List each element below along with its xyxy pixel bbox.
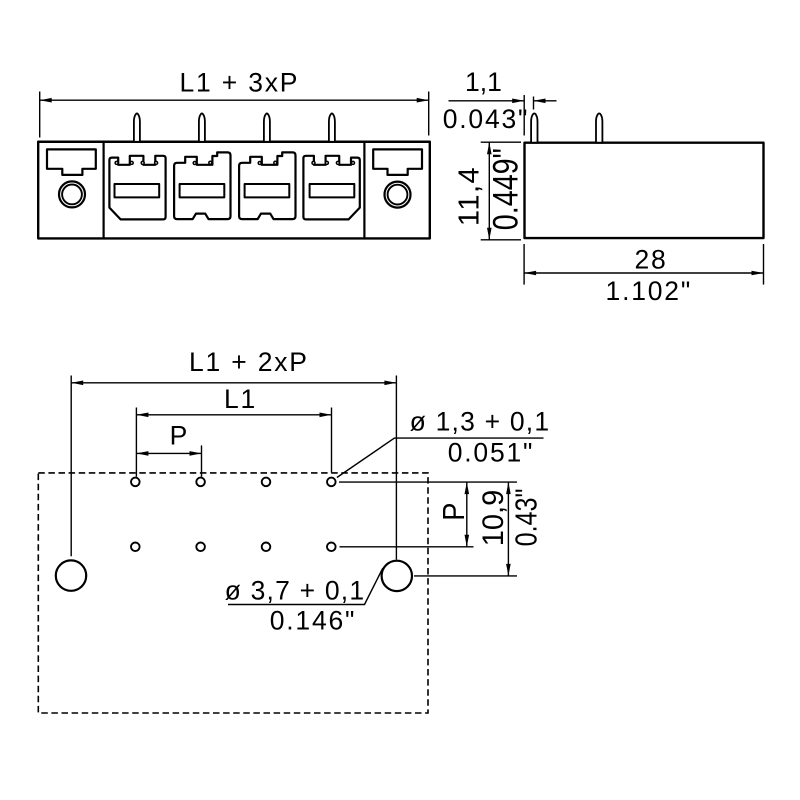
svg-text:0.043": 0.043" [443,104,530,134]
svg-text:L1 + 3xP: L1 + 3xP [180,67,300,97]
svg-text:P: P [438,503,472,521]
svg-text:10,9: 10,9 [477,490,510,547]
svg-text:11,4: 11,4 [454,166,486,226]
svg-text:P: P [170,420,189,450]
svg-text:ø 3,7 + 0,1: ø 3,7 + 0,1 [225,576,366,606]
svg-text:1.102": 1.102" [606,276,693,306]
svg-text:L1 + 2xP: L1 + 2xP [189,347,309,377]
svg-text:ø 1,3 + 0,1: ø 1,3 + 0,1 [410,407,551,437]
svg-text:0.051": 0.051" [448,438,535,468]
svg-text:0.146": 0.146" [270,606,357,636]
svg-text:1,1: 1,1 [465,67,502,97]
svg-text:0.43": 0.43" [508,489,543,547]
svg-text:0.449": 0.449" [486,148,526,230]
svg-text:28: 28 [634,244,667,274]
svg-text:L1: L1 [224,384,257,414]
